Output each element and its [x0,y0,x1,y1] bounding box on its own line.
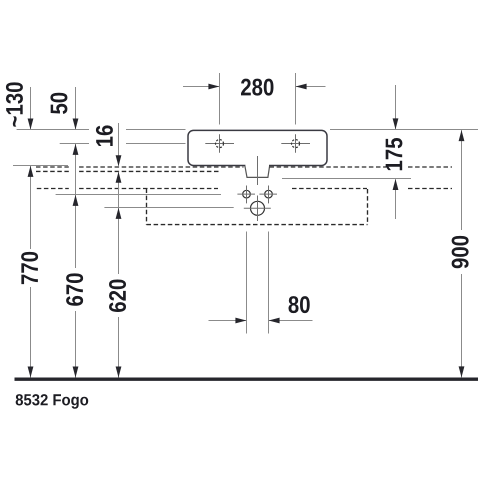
drain pipe left line [246,232,248,334]
label 670 [66,273,83,305]
label 16 [96,125,113,146]
title 8532 Fogo [16,394,89,409]
label 620 [109,280,126,312]
dimension 280 line [183,86,219,88]
fixing hole left crosshair [237,193,255,195]
label 80 [289,296,310,313]
label 900 [452,236,469,268]
faucet hole right dashed circle [292,140,300,148]
faucet hole left crosshair [205,143,234,145]
faucet level extension line [60,143,89,145]
175 extension line [282,178,411,180]
waste hole big circle [251,201,265,215]
dimension 50 line [75,87,77,129]
waste hole crosshair [244,207,271,209]
label 280 [241,79,273,96]
drain trapezoid [245,166,270,177]
console left dashed edge [146,189,148,225]
label 50 [50,93,67,114]
dimension ~130 line [30,87,32,129]
basin top extension line [17,129,89,131]
countertop bottom dashed line [36,170,69,172]
fixing hole right circle [265,190,273,198]
dimension 280 extension lines [219,73,221,125]
supply line lower [104,207,233,209]
dimension 670 line [75,144,77,268]
drain centre line [257,156,259,185]
faucet hole left dashed circle [216,140,224,148]
basin bottom gap for drain throat [245,164,269,168]
rim bottom reference line [13,165,68,167]
label 175 [386,138,403,170]
dimension 770 line [30,166,32,249]
console right dashed edge [367,189,369,225]
dimension 80 line [209,320,247,322]
basin outline [188,130,327,165]
fixing hole left circle [243,190,251,198]
label ~130 [6,82,23,126]
dimension 900 line [461,130,463,230]
supply line upper [56,194,221,196]
faucet hole right crosshair [281,143,310,145]
console bottom dashed line [147,224,368,226]
floor line [15,378,479,381]
console front dashed line [37,188,69,190]
countertop top dashed line [36,166,69,168]
dimension 620 line [118,172,120,274]
dimension 175 line [395,85,397,129]
drain pipe right line [268,232,270,334]
label 770 [21,252,38,284]
dimension 16 line [118,123,120,166]
fixing hole right crosshair [259,193,277,195]
